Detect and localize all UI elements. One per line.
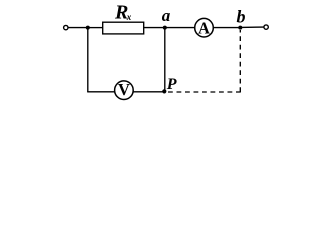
voltmeter V [115, 80, 134, 99]
node a junction dot [163, 26, 167, 30]
dashed wire: node P to lower right corner [168, 91, 241, 93]
node P junction dot [162, 89, 166, 93]
dashed wire: lower right corner up to node b [239, 30, 241, 92]
wire: junction to resistor Rx left lead [88, 27, 103, 29]
svg-text:b: b [237, 7, 246, 27]
wire: bottom left to voltmeter [87, 91, 116, 93]
wire: left vertical branch [87, 28, 89, 92]
svg-text:Rx: Rx [114, 1, 132, 23]
node b junction dot [238, 26, 242, 30]
node label P [166, 76, 177, 93]
svg-text:a: a [162, 6, 171, 25]
wire: node b to right terminal [240, 26, 263, 28]
wire: resistor Rx right lead to node a [144, 27, 165, 29]
terminal: left open circle [64, 25, 68, 29]
svg-text:A: A [198, 19, 210, 38]
junction node (left of resistor) [86, 26, 90, 30]
ammeter A [195, 18, 214, 37]
wire: ammeter to node b [212, 27, 240, 29]
wire: node a to ammeter [165, 27, 196, 29]
label Rx [114, 1, 132, 23]
wire: voltmeter to node P [132, 91, 165, 93]
svg-text:V: V [118, 80, 130, 99]
svg-text:P: P [166, 76, 177, 93]
node label a [162, 6, 171, 25]
wire: left terminal to junction [68, 27, 88, 29]
wire: node a to node P vertical [164, 28, 166, 92]
node label b [237, 7, 246, 27]
resistor Rx body [103, 22, 144, 34]
terminal: right open circle [264, 25, 268, 29]
